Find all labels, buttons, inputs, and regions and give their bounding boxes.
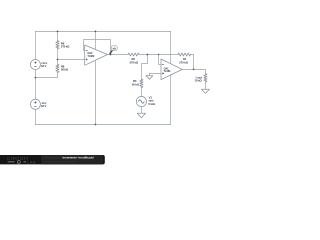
op-amp OA2 [85,45,108,65]
ground OA1 input [146,76,153,80]
wire V3 to bottom rail [34,109,36,124]
svg-text:5 kHz: 5 kHz [148,102,155,106]
wire OA1 plus input to ground [149,73,161,75]
ground V1 [137,113,145,118]
svg-text:56 kΩ: 56 kΩ [61,68,69,72]
op-amp OA1 [161,59,182,80]
svg-text:18 V: 18 V [41,104,47,108]
op-amp OA2 input polarity marks [86,50,88,60]
wire OA1 V- pin [170,75,172,125]
resistor R2 body [128,53,139,56]
svg-text:56 kΩ: 56 kΩ [132,82,140,86]
source V2 polarity marks [34,61,36,66]
wire RLoad lower lead [204,82,206,89]
resistor bodies (zigzags) [56,41,207,88]
svg-text:LAB: LAB [27,160,36,164]
svg-text:TL082: TL082 [164,69,171,73]
wire R8 leads and return to source midpoint [35,59,57,77]
wire bottom rail [35,124,170,126]
watermark CircuitLab [0,155,105,164]
wire top rail [35,30,170,32]
node flag vb [110,46,118,55]
svg-text:TL082: TL082 [87,54,94,58]
resistor R6 body [56,41,59,49]
wire OA2 output [108,54,129,56]
source V1 sine [136,96,146,106]
wire OA2 V+ pin [95,31,97,49]
wire R6 leads [57,31,59,59]
wire OA2 feedback loop [83,40,110,55]
wire V2 to V3 [34,70,36,100]
junction dots [35,31,195,126]
resistor R8 body [56,64,59,72]
wire R3 lower lead to V1 [140,88,142,97]
wire OA1 output [182,69,205,73]
svg-text:270 kΩ: 270 kΩ [130,60,139,64]
wire OA1 V+ pin [170,31,172,63]
wire V1 to ground [140,107,142,114]
resistor RLoad body [204,74,207,82]
resistor R1 body [178,53,191,56]
wire left column top (rail to V2) [34,31,36,59]
wire signal node to OA1 minus input [159,55,161,65]
wire node to R3 [141,55,147,80]
source V2 +Vcc [30,60,40,70]
source V3 polarity marks [34,101,36,106]
wire OA2 V- pin [95,61,97,125]
svg-text:10 kΩ: 10 kΩ [195,79,203,83]
svg-text:circuitlab.com/c/7hv38hs4: circuitlab.com/c/7hv38hs4 [43,159,76,163]
wire divider mid to OA2 plus input [58,58,85,60]
wire R2 to R1 (signal node) [139,54,178,56]
source V3 -Vcc [30,99,40,109]
svg-text:270 kΩ: 270 kΩ [61,45,70,49]
wire R1 right to output node [191,55,194,70]
svg-text:18 V: 18 V [41,64,47,68]
svg-text:vb: vb [113,46,117,50]
svg-text:270 kΩ: 270 kΩ [179,60,188,64]
ground RLoad [201,89,209,93]
op-amp OA1 input polarity marks [162,64,164,74]
source V1 sine mark [138,100,144,103]
resistor R3 body [140,79,143,87]
